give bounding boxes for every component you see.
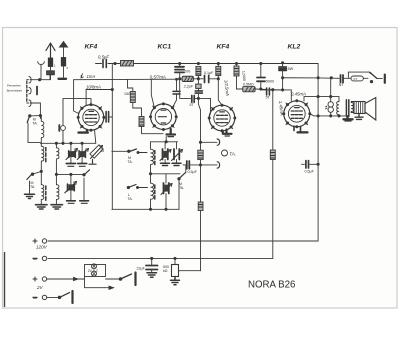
capacitor C-HI 0.5uF xyxy=(183,161,201,169)
power terminal -2V xyxy=(33,295,47,299)
svg-text:KL2: KL2 xyxy=(288,44,301,51)
svg-text:TA.: TA. xyxy=(128,160,133,164)
svg-text:TA.: TA. xyxy=(179,186,184,190)
dashed link line xyxy=(26,81,28,102)
ground under L2 xyxy=(36,205,48,209)
wire jack line xyxy=(283,77,339,80)
switch S2 lower right xyxy=(80,170,90,204)
wire +120V line xyxy=(48,240,318,242)
variable capacitor CV1 xyxy=(66,143,78,166)
capacitor grid cap tube1 xyxy=(104,112,113,123)
wire 2V plus xyxy=(47,278,84,280)
switch S1 left xyxy=(25,171,42,198)
switch S5 jack xyxy=(370,72,385,83)
switch S6 main xyxy=(119,273,135,286)
switch S4 M/TA xyxy=(178,165,186,180)
capacitor C15 0,5uF xyxy=(302,161,320,168)
svg-text:Sprechtaste: Sprechtaste xyxy=(7,89,23,93)
left edge dark streak xyxy=(4,252,6,307)
transformer T1 primary xyxy=(337,97,339,116)
resistor R4 series box xyxy=(182,76,193,81)
wire after lampbox xyxy=(106,278,120,280)
TA circle xyxy=(222,150,228,156)
svg-text:120V: 120V xyxy=(36,245,48,250)
wire tube4 anode xyxy=(304,97,318,101)
switch S0 band xyxy=(27,115,40,143)
tube V2 KC1 xyxy=(149,102,178,131)
coil L3 xyxy=(56,143,59,184)
svg-text:KT: KT xyxy=(354,77,358,81)
bottom line of can xyxy=(112,208,179,210)
wire line1 xyxy=(74,78,183,81)
plus minus signs xyxy=(33,256,37,302)
node bus-cap xyxy=(114,62,116,64)
TA terminal arc 1 xyxy=(217,139,219,145)
wire tube1 cathode down xyxy=(95,130,96,144)
capacitor C 200 bus stack xyxy=(175,62,184,80)
svg-text:TA.: TA. xyxy=(32,122,37,126)
potentiometer P35 xyxy=(89,145,103,164)
svg-text:200: 200 xyxy=(184,69,190,73)
switch S3b M/TA xyxy=(127,185,147,189)
node top bus x198.4 xyxy=(197,62,199,64)
svg-text:150: 150 xyxy=(124,92,130,96)
svg-text:0,5μF: 0,5μF xyxy=(98,55,109,60)
wire long vertical to bias xyxy=(198,98,200,270)
coil L5 xyxy=(151,142,178,174)
svg-text:5000: 5000 xyxy=(266,79,274,83)
tube V3 KF4 xyxy=(208,104,237,133)
transformer T1 secondary xyxy=(351,102,354,113)
svg-text:35: 35 xyxy=(100,149,104,153)
speaker SP xyxy=(354,98,376,121)
transformer T1 core xyxy=(345,100,347,117)
svg-text:0,45mA: 0,45mA xyxy=(291,91,306,96)
wire screen line tube1 xyxy=(86,90,112,105)
core dashes L2 xyxy=(45,186,47,200)
current arrow 1mA xyxy=(81,74,83,79)
core dashes L1 xyxy=(45,148,47,162)
input connector P1 xyxy=(27,77,31,83)
jack bar xyxy=(36,87,38,95)
resistor R2 150 xyxy=(128,80,136,108)
left tuning: wire top xyxy=(40,142,95,144)
svg-text:5W: 5W xyxy=(288,67,294,71)
wire TA1 xyxy=(201,141,218,143)
capacitor C13 KT xyxy=(341,75,344,83)
wire bus corner down xyxy=(317,64,319,242)
wire antenna input xyxy=(30,75,50,80)
variable capacitor CV3 lower xyxy=(65,174,77,203)
resistor R12 with loop xyxy=(344,72,370,81)
coil L2 xyxy=(41,171,44,204)
svg-text:NT: NT xyxy=(339,83,345,87)
wire rail bottom line xyxy=(310,114,347,116)
choke dual coil xyxy=(326,97,334,116)
wire tube4 grid xyxy=(261,90,291,101)
wire tube2 grid left xyxy=(151,80,154,108)
svg-text:KF4: KF4 xyxy=(85,44,98,51)
capacitor C8 5T series xyxy=(192,96,211,103)
resistor R13 500k xyxy=(171,257,201,284)
svg-text:Fernsehen: Fernsehen xyxy=(7,84,21,88)
power terminal +120 xyxy=(33,239,47,243)
variable capacitor CV2 xyxy=(77,143,88,166)
ground under core xyxy=(344,116,353,119)
antenna A2 triangle xyxy=(59,42,68,79)
wire mid row xyxy=(56,173,84,175)
wire tube1 left xyxy=(74,80,79,114)
resistor R6 xyxy=(196,66,201,78)
node L1L2 xyxy=(40,170,42,172)
capacitor C14 22uF xyxy=(146,257,158,277)
switch S7 xyxy=(58,291,72,303)
svg-text:22μF: 22μF xyxy=(137,267,146,271)
svg-text:2V 0,2: 2V 0,2 xyxy=(88,269,98,273)
resistor R9 0.5M horizontal xyxy=(237,87,267,92)
ground under tube2 xyxy=(167,129,176,135)
trimmer cap CT1 xyxy=(160,142,171,166)
ground under L4 xyxy=(51,205,63,209)
coil L6 xyxy=(151,174,154,210)
tube V4 KL2 xyxy=(282,99,311,128)
svg-text:TA.: TA. xyxy=(128,197,133,201)
svg-text:–: – xyxy=(33,295,37,302)
trimmer cap CT2 xyxy=(172,142,183,166)
wire 1mA vertical xyxy=(111,65,113,210)
TA terminal arc 2 xyxy=(217,162,219,168)
svg-text:0,5μF: 0,5μF xyxy=(305,169,315,173)
svg-text:2,2μF: 2,2μF xyxy=(183,84,194,88)
capacitor C7 box xyxy=(195,79,202,99)
coil LA antenna xyxy=(41,116,44,144)
trimmer cap CT3 xyxy=(151,174,181,210)
connector link circle xyxy=(61,126,66,131)
ground under tube1 xyxy=(79,130,88,133)
wire minus line xyxy=(48,257,273,259)
ground under tube4 xyxy=(294,126,308,132)
svg-text:–: – xyxy=(33,256,37,263)
wire TA2 xyxy=(201,164,218,166)
right side of can up xyxy=(178,180,180,210)
capacitor C9 5000 xyxy=(257,62,265,90)
resistor R1 (series) xyxy=(121,61,134,67)
wire grid bias vertical x272.8 xyxy=(272,90,274,150)
capacitor C 0.1uF series xyxy=(193,75,218,82)
wire tube2 right pin xyxy=(172,94,176,108)
wire jack tap down xyxy=(330,78,332,97)
power terminal -120 xyxy=(33,256,47,260)
switch S3 M/TA xyxy=(128,149,147,154)
antenna fork Y xyxy=(38,62,45,80)
resistor R11 xyxy=(270,150,275,160)
coil L4 xyxy=(56,185,59,205)
wire screen branch xyxy=(180,79,191,99)
svg-text:TA.: TA. xyxy=(30,185,35,189)
ground under tube3 xyxy=(223,130,232,134)
svg-text:0,5MΩ: 0,5MΩ xyxy=(243,82,254,86)
svg-text:TA.: TA. xyxy=(229,151,236,156)
svg-text:NORA B26: NORA B26 xyxy=(248,279,295,290)
core dashes L5 xyxy=(154,151,156,165)
node antenna coil top xyxy=(39,115,41,117)
capacitor C11 5W stack xyxy=(279,62,287,90)
wire top bus xyxy=(115,63,318,65)
node transformer feed xyxy=(317,96,319,98)
resistor R3 grid leak xyxy=(133,108,166,142)
capacitor C1 0.5uF xyxy=(96,60,116,68)
wire -2V xyxy=(47,296,58,298)
resistor R10b xyxy=(198,202,203,211)
coil L1 xyxy=(41,143,44,171)
svg-text:0,5/7mA: 0,5/7mA xyxy=(150,74,166,79)
node mid coils xyxy=(149,173,151,175)
core dashes L6 xyxy=(154,185,156,199)
svg-text:0,5μF: 0,5μF xyxy=(188,170,198,174)
node L3 mid xyxy=(55,173,57,175)
wire left coupling down xyxy=(62,99,64,144)
svg-text:2V: 2V xyxy=(36,285,44,290)
IF can: vertical feed xyxy=(112,150,128,152)
capacitor C small xyxy=(173,78,180,94)
wire from P3 xyxy=(30,103,40,119)
svg-text:1mA: 1mA xyxy=(87,74,96,79)
wire grid line tube1 top xyxy=(63,99,91,105)
antenna A1 arrow xyxy=(46,43,55,80)
svg-text:0,1μF: 0,1μF xyxy=(204,71,214,75)
input connector P2 xyxy=(27,88,31,94)
power terminal +2V xyxy=(33,277,47,281)
wire to tube3 left pin xyxy=(209,98,210,116)
svg-text:kΩ: kΩ xyxy=(163,269,168,273)
svg-text:KF4: KF4 xyxy=(217,44,230,51)
svg-text:KC1: KC1 xyxy=(158,44,172,51)
wire to transformer xyxy=(318,96,339,98)
node jack line xyxy=(317,77,319,79)
lamp box xyxy=(85,264,114,290)
resistor R10 xyxy=(198,150,203,159)
resistor R7 xyxy=(216,62,222,105)
capacitor C10 coupling xyxy=(267,88,283,95)
resistor R8 xyxy=(234,62,239,89)
tube V1 KF4 xyxy=(77,103,106,132)
svg-text:10/8mA: 10/8mA xyxy=(86,84,101,89)
input connector P3 xyxy=(27,100,31,106)
